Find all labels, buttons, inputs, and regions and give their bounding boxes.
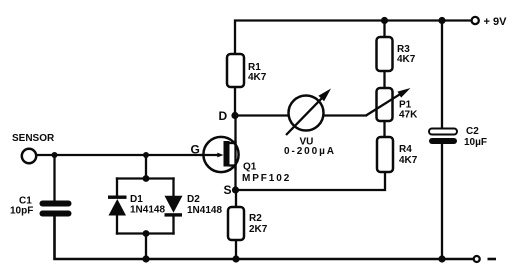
node S [224,183,240,197]
wire drain-source vertical segment over circle [234,140,236,170]
diode network box wires [117,179,174,234]
wire R2 bottom stub to bottom rail [235,240,237,259]
wire drain-source vertical through Q1 [234,116,236,191]
wire R3 bottom to P1 top [383,71,385,88]
svg-text:1N4148: 1N4148 [130,205,165,216]
wire R1 bottom to node D [234,87,236,116]
svg-text:D2: D2 [187,194,200,205]
svg-text:S: S [224,183,232,197]
junction dot gate/diode-box [143,152,149,158]
wire C2 branch from top rail down to C2 [441,21,443,130]
resistor R2 [228,207,268,240]
svg-text:G: G [191,143,200,157]
junction dot diode-box bottom [143,230,150,237]
drain stub [229,142,236,144]
wire source line from R4 bottom to node S [236,172,386,190]
svg-text:MPF102: MPF102 [242,173,291,184]
capacitor C1 [10,196,72,217]
transistor Q1 MPF102 (JFET) [200,137,291,184]
wire P1 bottom to R4 top [383,121,385,137]
svg-text:Q1: Q1 [243,162,257,173]
wire gate line from sensor to Q1 [37,154,217,156]
channel bar [224,141,230,167]
wire box left edge lower [116,216,118,234]
wire top rail from R1 corner to +9V terminal [235,21,471,55]
wire diode-box stub from gate line down to box top [145,155,147,179]
svg-text:4K7: 4K7 [397,54,416,65]
svg-text:D1: D1 [130,194,143,205]
resistor R1 [227,54,267,87]
svg-text:2K7: 2K7 [249,224,268,235]
svg-text:R4: R4 [399,144,412,155]
junction dot bottom rail / C2 [438,255,445,262]
junction dot gate/C1 [52,152,58,158]
svg-text:4K7: 4K7 [399,155,418,166]
node D [219,109,239,123]
svg-text:10µF: 10µF [464,137,487,148]
svg-text:47K: 47K [399,110,418,121]
wire box right edge upper [172,179,174,197]
wire box right edge lower [172,216,174,234]
wire diode-box bottom stub to bottom rail [145,234,147,260]
junction dot bottom rail / diode-box [142,255,149,262]
wire R3 top stub from top rail [383,21,385,38]
wire C1 branch down from gate node [53,155,55,201]
wire box left edge upper [116,179,118,197]
terminal +9V [472,16,507,28]
svg-text:4K7: 4K7 [248,72,267,83]
wire C2 bottom to bottom rail [441,144,443,260]
junction dot top rail / C2 [438,17,445,24]
junction dot bottom rail / R2 [232,255,239,262]
source stub [229,164,236,166]
svg-text:1N4148: 1N4148 [187,205,222,216]
svg-text:+ 9V: + 9V [484,16,508,28]
wire node D to VU meter and P1 wiper (horizontal) [235,114,366,116]
resistor R4 [377,137,418,172]
diode D2 1N4148 [165,194,223,217]
wire R2 top stub from node S [235,190,237,207]
junction dot top rail / R3 [381,17,388,24]
terminal minus [474,256,496,262]
wire box top edge [117,177,174,179]
meter VU 0-200uA [284,89,336,158]
svg-text:C2: C2 [466,126,479,137]
svg-text:SENSOR: SENSOR [12,133,55,144]
capacitor C2 (electrolytic) [429,126,487,148]
junction dot diode-box top [143,175,150,182]
svg-text:R2: R2 [249,213,262,224]
terminal SENSOR [12,133,55,163]
potentiometer P1 [366,88,418,121]
diode D1 1N4148 [108,194,165,216]
resistor R3 [377,37,416,71]
wire bottom rail from C1 corner to minus terminal [55,217,474,260]
wire box bottom edge [117,232,174,234]
svg-text:10pF: 10pF [10,206,33,217]
svg-text:D: D [219,109,228,123]
svg-text:0-200µA: 0-200µA [284,146,336,157]
gate lead with arrow [200,154,218,156]
